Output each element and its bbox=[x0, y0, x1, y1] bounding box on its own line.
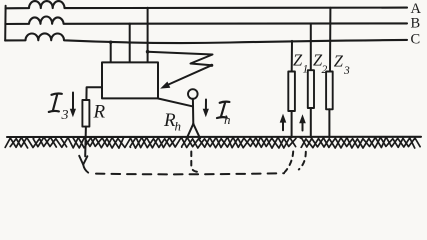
svg-text:h: h bbox=[175, 119, 182, 134]
svg-text:1: 1 bbox=[303, 64, 309, 76]
svg-text:3: 3 bbox=[343, 65, 350, 77]
svg-text:B: B bbox=[411, 16, 421, 32]
svg-text:Z: Z bbox=[293, 51, 303, 70]
svg-text:h: h bbox=[224, 112, 231, 127]
svg-text:R: R bbox=[93, 102, 106, 123]
svg-text:Z: Z bbox=[334, 52, 344, 71]
svg-text:C: C bbox=[411, 32, 421, 48]
svg-text:2: 2 bbox=[322, 64, 328, 76]
svg-text:3: 3 bbox=[61, 108, 69, 123]
svg-text:A: A bbox=[411, 1, 422, 17]
